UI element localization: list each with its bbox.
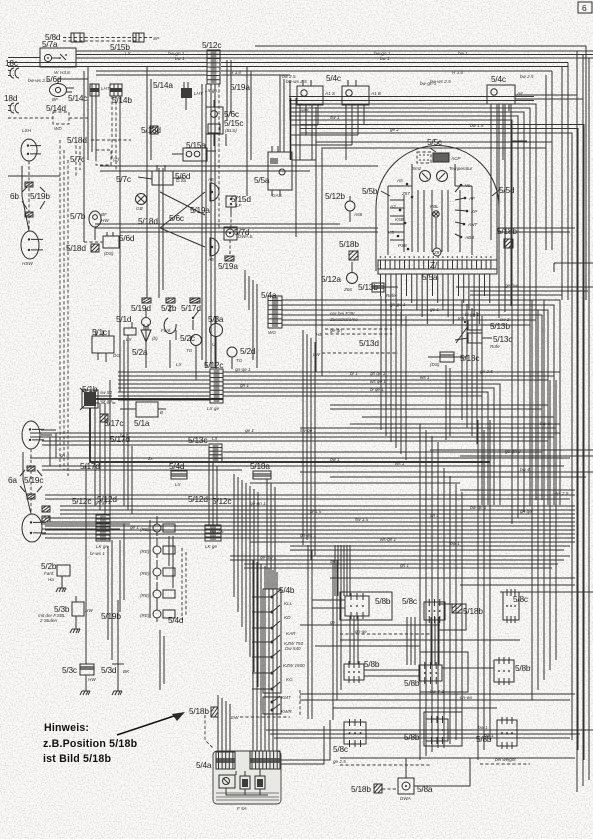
svg-text:5/18d: 5/18d [66, 243, 86, 253]
svg-text:5/4a: 5/4a [196, 760, 212, 770]
svg-text:gn-ge: gn-ge [355, 629, 367, 634]
svg-text:Zusatzstrome: Zusatzstrome [329, 317, 358, 322]
module frame right of 5/8c row1 [438, 604, 466, 630]
unit 5/8a DWA [398, 778, 414, 801]
svg-text:ws 1: ws 1 [420, 375, 430, 380]
vertical bus x478-492 [478, 420, 490, 760]
svg-text:(RE): (RE) [140, 571, 150, 576]
svg-text:sw 1: sw 1 [330, 115, 340, 120]
module frame around 5/8b row2-mid [420, 652, 468, 692]
wire 6b chain vertical [22, 161, 29, 231]
svg-text:18c: 18c [5, 58, 18, 68]
svg-text:bl 1.5: bl 1.5 [310, 509, 322, 514]
relay 5/8c row3-left [344, 719, 366, 747]
connector SP dashed line 5/8d [63, 38, 152, 42]
svg-text:LX: LX [126, 337, 133, 342]
connector 5/18b row1 hatch [452, 604, 462, 613]
svg-text:EW: EW [231, 715, 239, 720]
svg-text:ge-gn: ge-gn [330, 328, 342, 333]
svg-text:2x: 2x [147, 456, 154, 461]
svg-text:bw 1: bw 1 [458, 51, 468, 56]
svg-text:5/19a: 5/19a [190, 205, 210, 215]
svg-text:bw-gn 1: bw-gn 1 [470, 505, 487, 510]
wire dashed verticals beside chain [182, 548, 186, 620]
wire dashed ge2.5 bottom [333, 757, 530, 765]
svg-text:5/13c: 5/13c [493, 334, 512, 344]
svg-text:5/18a: 5/18a [250, 461, 270, 471]
svg-text:5/19c: 5/19c [24, 475, 43, 485]
dashed box 5/7c upper [96, 150, 111, 165]
wire bus top-B right of 5/12c [221, 63, 568, 67]
relay 5/6d mid body with DS [152, 165, 187, 185]
wire 5/19b vertical [108, 524, 124, 660]
wire top-left risers [76, 66, 88, 242]
wire 5/7a left stub to page edge [8, 57, 40, 59]
arrow to 5/18b [117, 712, 185, 735]
svg-text:A55: A55 [353, 212, 363, 217]
svg-text:VL: VL [465, 183, 471, 188]
lamp GB circle [136, 194, 147, 212]
switch 5/2b mid [161, 305, 176, 340]
wire bus y404-417 right half [330, 405, 554, 417]
lamp 5/19d symbol [142, 308, 151, 334]
wire feeders into fuse box left [205, 695, 230, 752]
svg-text:5/1b: 5/1b [82, 384, 98, 394]
fuse box inner element 2 [240, 776, 250, 789]
wire verticals x280-284 to GAS [280, 75, 284, 152]
connector 5/12c top [207, 50, 220, 84]
svg-text:5/3a: 5/3a [208, 314, 224, 324]
relay 5/8b row3-mid [426, 716, 448, 744]
svg-text:5/4a: 5/4a [261, 290, 277, 300]
svg-text:bl ge 1: bl ge 1 [370, 387, 384, 392]
wire bus top-C2 (y96-100) [289, 97, 534, 101]
wire row y483 [250, 482, 460, 484]
wire dome feeder verticals down to buses [381, 296, 482, 460]
connector 5/1d [124, 322, 136, 345]
svg-text:ge: ge [330, 620, 336, 625]
svg-text:KZW 1500: KZW 1500 [283, 663, 305, 668]
module frame around 5/8b row1 [340, 592, 392, 620]
wire misc bottom-right [300, 690, 470, 786]
wire bus G (y458-470) [30, 452, 570, 470]
svg-text:5/14a: 5/14a [153, 80, 173, 90]
headlamp 6b upper oval [21, 139, 41, 161]
svg-text:Z66: Z66 [343, 287, 352, 292]
svg-text:5/12c: 5/12c [72, 496, 91, 506]
connector 5/19d top hatch [142, 298, 151, 303]
ground under 5/3d [112, 686, 122, 695]
svg-text:nur bei F28L: nur bei F28L [330, 311, 356, 316]
unit 5/1a box [120, 402, 166, 417]
unit 5/3b box [72, 596, 93, 624]
svg-text:5/7c: 5/7c [70, 154, 85, 164]
svg-text:5/15a: 5/15a [186, 140, 206, 150]
svg-text:ist Bild 5/18b: ist Bild 5/18b [43, 753, 111, 765]
svg-text:(RE): (RE) [140, 613, 150, 618]
connector LK ge striped right [205, 525, 221, 549]
svg-text:bw-T 1: bw-T 1 [430, 689, 444, 694]
svg-text:5/8b: 5/8b [404, 678, 420, 688]
wire verticals top-mid legs [147, 60, 257, 368]
ground under 5/3b [70, 624, 80, 633]
svg-text:5/2c: 5/2c [180, 333, 195, 343]
svg-text:5/8b: 5/8b [515, 663, 531, 673]
svg-text:LX: LX [125, 51, 132, 56]
wire 6a chain vertical [23, 449, 31, 514]
svg-text:(RE): (RE) [140, 549, 150, 554]
svg-text:bl-ge 1: bl-ge 1 [465, 312, 479, 317]
wire bus dome-right (y287-295) [456, 287, 593, 295]
wire top-right staircase to edge [511, 95, 583, 141]
wire mid cluster risers [124, 334, 232, 440]
connector 5/18b target hatch [211, 707, 218, 717]
wire 5/18b to 5/8a dashed [382, 758, 406, 789]
dome inner frame [388, 164, 472, 255]
wire bus from 5/12c mid to right [223, 372, 560, 505]
svg-text:sw 1.5: sw 1.5 [355, 517, 369, 522]
headlamp 6b lower oval [21, 231, 43, 259]
svg-text:KWR: KWR [281, 709, 292, 714]
svg-text:5/3c: 5/3c [62, 665, 77, 675]
module frame around 5/8b row3-mid [424, 712, 462, 746]
wire code texture labels [60, 81, 569, 700]
wire 5/5d pointer [492, 190, 499, 196]
fuse box inner texture rows [216, 793, 279, 800]
svg-text:gn-ge 1: gn-ge 1 [95, 500, 111, 505]
relay 5/8b row2-left [344, 661, 364, 683]
svg-text:(RE): (RE) [140, 527, 150, 532]
svg-text:bw 1: bw 1 [175, 56, 185, 61]
wire 5/3b riser [85, 534, 87, 600]
ground under 5/3c [80, 686, 90, 695]
svg-text:bei weight: bei weight [495, 757, 516, 762]
wire 5/1b area stubs [96, 390, 116, 403]
svg-text:gn 1: gn 1 [430, 513, 439, 518]
relay 5/8b row2-mid [419, 662, 442, 684]
svg-text:5/15d: 5/15d [231, 194, 251, 204]
connector 5/1b dark plug [80, 388, 98, 410]
wire big bus (y505-540) [45, 506, 575, 550]
fuse box inner relay circle [219, 775, 235, 788]
dome left terminal dots [388, 178, 413, 250]
svg-text:5/18b: 5/18b [351, 784, 371, 794]
relay 5/13b right [458, 316, 482, 330]
wire HE dashed pair mid [316, 328, 392, 337]
svg-text:5/5b: 5/5b [362, 186, 378, 196]
svg-text:B: B [160, 410, 163, 415]
switch 5/2d [227, 347, 243, 364]
svg-text:Rufe: Rufe [386, 293, 396, 298]
svg-text:5/8b: 5/8b [375, 596, 391, 606]
svg-text:WD: WD [54, 126, 62, 131]
svg-text:KP: KP [471, 209, 478, 214]
svg-text:ge 1: ge 1 [130, 525, 139, 530]
switch 5/15d [226, 196, 243, 214]
svg-text:HSW: HSW [22, 261, 33, 266]
wire 5/18d stub [91, 139, 131, 141]
ACP hatched display in dome [433, 153, 461, 162]
connector 5/17d top hatch [190, 298, 200, 303]
socket 5/12b circle A55 [345, 196, 363, 222]
svg-text:ge 1: ge 1 [245, 428, 254, 433]
horn 5/6d oval [50, 84, 75, 97]
svg-text:(RE): (RE) [140, 593, 150, 598]
svg-text:Z57: Z57 [401, 191, 410, 196]
wire feeders into fuse box right [253, 560, 277, 751]
connector 5/8d left plug [71, 33, 84, 42]
headlamp 6a lower oval [22, 514, 46, 542]
wire 5/6d up to bus [58, 79, 88, 84]
svg-text:(b): (b) [152, 336, 158, 341]
svg-text:A1 B: A1 B [370, 91, 381, 96]
svg-text:bw-gn 1: bw-gn 1 [420, 81, 437, 86]
connector 5/18b bottom hatch [374, 784, 382, 793]
svg-text:6b: 6b [10, 191, 19, 201]
ground under 5/2b [56, 583, 66, 592]
wire enclosing loop around dome outer [316, 142, 552, 372]
svg-text:ws 2.5: ws 2.5 [555, 491, 569, 496]
svg-text:(DS): (DS) [104, 251, 114, 256]
vertical bus x333-341 [333, 555, 341, 720]
wire 6a stubs right [41, 430, 130, 534]
svg-text:5/14b: 5/14b [112, 95, 132, 105]
wire mid horizontals (y165-175) [8, 166, 378, 176]
wire bus F (y433-445) [30, 433, 560, 445]
svg-text:Fanf.: Fanf. [44, 571, 54, 576]
svg-text:KLL: KLL [284, 601, 293, 606]
wire verticals x446-450 from 5/13c [446, 365, 450, 440]
wire right bus rows (y545-600) [230, 556, 593, 592]
connector 5/18b dome-left hatch [349, 251, 358, 260]
svg-text:LHT: LHT [101, 86, 111, 91]
svg-text:sw-ge 1: sw-ge 1 [300, 428, 317, 433]
svg-text:gn-ws 1: gn-ws 1 [300, 533, 317, 538]
wire 5/7d down to 5/19a [229, 240, 231, 256]
svg-text:5/13b: 5/13b [490, 321, 510, 331]
wire bus top-C [96, 71, 207, 75]
svg-text:A1 S: A1 S [324, 91, 336, 96]
relay 5/8b row3-right [497, 717, 517, 749]
wire top line y46 loop [255, 46, 586, 300]
svg-text:6: 6 [582, 3, 587, 13]
connector 5/14c [90, 84, 99, 96]
relay 5/6d lower-left body [84, 232, 119, 256]
wire bus from 5/4a to right (y300-326) [282, 300, 560, 500]
svg-text:5/2d: 5/2d [240, 346, 256, 356]
wire EW dashed bottom [231, 715, 290, 720]
wire 5/4b rail risers [267, 479, 275, 589]
wire 5/13 connector down to LK ge [209, 462, 217, 525]
svg-text:5/13d: 5/13d [359, 338, 379, 348]
svg-text:5/19b: 5/19b [30, 191, 50, 201]
svg-text:bw-ws 2.5: bw-ws 2.5 [28, 78, 49, 83]
svg-text:5/4b: 5/4b [279, 585, 295, 595]
svg-text:5/14d: 5/14d [46, 103, 66, 113]
svg-text:5/3d: 5/3d [101, 665, 117, 675]
connector LK gn striped left [96, 515, 110, 549]
relay 5/8c row1-mid [424, 599, 445, 623]
wire bw-T bus bottom right [266, 725, 593, 738]
oval 5/7b [89, 211, 109, 240]
wire verticals mid legs to bundles [50, 433, 164, 690]
svg-text:br 1: br 1 [120, 433, 128, 438]
svg-text:ANT: ANT [467, 222, 478, 227]
wire 5/4c left pins down [300, 112, 364, 160]
svg-text:Dw 540: Dw 540 [285, 646, 301, 651]
dome internal wiring web [390, 185, 467, 252]
wire verticals below 5/4c right (x499-511) [499, 104, 511, 318]
svg-text:(BLS): (BLS) [225, 128, 237, 133]
svg-text:Hinweis:: Hinweis: [44, 722, 89, 734]
wire relay A stubs [312, 600, 358, 664]
wire vertical x296 [295, 98, 297, 237]
relay 5/1c body [92, 330, 120, 362]
svg-text:ge-gn 2: ge-gn 2 [505, 449, 521, 454]
wire row y646 [315, 645, 420, 647]
fuse box 5/4a outer [213, 751, 281, 804]
svg-text:Z8: Z8 [433, 250, 440, 255]
connector 18c headlight plug [8, 68, 19, 78]
svg-text:bw 1.5: bw 1.5 [470, 123, 484, 128]
svg-text:ge-bw: ge-bw [505, 283, 518, 288]
wire 5/5b pointer [381, 191, 390, 196]
svg-text:(DS): (DS) [430, 362, 440, 367]
wire 5/4b feeders vertical [234, 474, 258, 687]
svg-text:LX: LX [176, 362, 183, 367]
svg-text:BK: BK [123, 669, 130, 674]
svg-text:bw 1: bw 1 [478, 725, 488, 730]
fuse box pin strip left [216, 752, 235, 769]
svg-text:LX ge: LX ge [207, 406, 219, 411]
svg-text:5/1a: 5/1a [134, 418, 150, 428]
relay 5/13c right [468, 333, 500, 349]
svg-text:LK gn: LK gn [96, 544, 108, 549]
horn 5/3a circle [210, 316, 223, 347]
svg-text:bw 1: bw 1 [330, 457, 340, 462]
svg-text:sw 5B: sw 5B [100, 398, 113, 403]
wire web around 5/13 group [455, 326, 468, 343]
svg-text:ws-gn 1: ws-gn 1 [380, 537, 397, 542]
svg-text:5/1d: 5/1d [116, 314, 132, 324]
wire 6b label pointers [22, 187, 45, 209]
svg-text:br 1: br 1 [350, 371, 358, 376]
svg-text:bw 1: bw 1 [380, 56, 390, 61]
svg-text:5/5d: 5/5d [499, 185, 515, 195]
connector 5/17c hatch [100, 414, 108, 422]
svg-text:ge 2: ge 2 [390, 127, 399, 132]
connector 5/8d right plug [133, 33, 144, 42]
wire enclosing loop around dome inner [322, 148, 546, 376]
socket 5/12a circle Z66 [343, 262, 358, 292]
svg-text:KG: KG [286, 677, 293, 682]
svg-text:HW: HW [101, 218, 109, 223]
svg-text:sw 1: sw 1 [330, 559, 340, 564]
svg-text:DG: DG [113, 353, 120, 358]
wire 5/12c vertical drops [211, 84, 219, 368]
svg-text:5/17d: 5/17d [80, 461, 100, 471]
svg-text:5/8b: 5/8b [364, 659, 380, 669]
switch column 5/4b outline [263, 589, 281, 714]
svg-text:H 3.8: H 3.8 [230, 70, 241, 75]
svg-text:gn-ge 1: gn-ge 1 [390, 302, 406, 307]
svg-text:A5: A5 [396, 178, 403, 183]
svg-text:ACP: ACP [450, 156, 461, 161]
svg-text:Temperatur: Temperatur [449, 166, 473, 171]
svg-text:5/2b: 5/2b [161, 303, 177, 313]
svg-text:GAS: GAS [272, 193, 283, 198]
svg-text:F 5A: F 5A [237, 806, 247, 811]
svg-text:KMT: KMT [281, 695, 292, 700]
svg-text:ge-gn 1: ge-gn 1 [250, 501, 266, 506]
lamp KBL symbol in dome [430, 204, 439, 217]
wire relay feeder verticals row1 [308, 545, 439, 719]
wire horizontals y223-232 [95, 224, 575, 232]
svg-text:bw 2.5: bw 2.5 [210, 529, 224, 534]
svg-text:ge-bw 1: ge-bw 1 [260, 555, 277, 560]
svg-text:ge 2.5: ge 2.5 [333, 759, 346, 764]
relay 5/4c right [487, 85, 523, 111]
svg-text:LSH: LSH [22, 128, 32, 133]
svg-text:(Z): (Z) [113, 157, 119, 162]
svg-text:5/8c: 5/8c [513, 594, 528, 604]
svg-text:2 Stufen: 2 Stufen [39, 618, 58, 623]
svg-text:sw 2: sw 2 [500, 317, 510, 322]
wire verticals x247-251 top [247, 67, 251, 196]
svg-text:gn-ge 1: gn-ge 1 [235, 367, 251, 372]
buzzer 5/2a triangle [141, 324, 158, 342]
svg-text:gn 2.5: gn 2.5 [480, 369, 493, 374]
relay 5/8b row2-right [494, 657, 514, 685]
svg-text:5/6c: 5/6c [169, 213, 184, 223]
svg-text:PS8: PS8 [398, 243, 407, 248]
svg-text:LK ge: LK ge [205, 544, 217, 549]
svg-text:5/13c: 5/13c [460, 353, 479, 363]
wire relay horizontals y620-640 [300, 620, 520, 640]
wire 5/5c pointer [430, 148, 436, 152]
svg-text:bw-ws 2.5: bw-ws 2.5 [286, 79, 307, 84]
wire 6a label pointers [20, 470, 42, 492]
wire long horizontals right half (y420-500) [45, 424, 593, 499]
half-moon contact A5 lower [207, 238, 219, 262]
relay chain TRE (x142-172) [140, 516, 175, 622]
connector 5/18d lowest hatch [91, 244, 99, 252]
svg-text:ws 1: ws 1 [395, 461, 405, 466]
fuse box inner element 3 [255, 776, 265, 789]
wire bus y135-160 joins [290, 125, 358, 145]
switch 5/17d mid [192, 310, 199, 330]
indicator dotted box in dome [417, 152, 431, 163]
svg-text:Z/: Z/ [430, 260, 438, 270]
svg-text:5/13c: 5/13c [188, 435, 207, 445]
unit 5/5a GAS box [268, 146, 292, 198]
svg-text:5/19a: 5/19a [218, 261, 238, 271]
svg-text:HE: HE [316, 332, 323, 337]
svg-text:bw 2.5: bw 2.5 [520, 74, 534, 79]
svg-text:gn 4: gn 4 [60, 453, 69, 458]
relay 5/4c left-B [342, 80, 381, 112]
svg-text:LW: LW [313, 352, 320, 357]
vertical bus x532-560 [532, 300, 556, 700]
switch contacts 5/4b [252, 590, 280, 712]
connector 5/12c mid [210, 369, 223, 403]
svg-text:Smz: Smz [412, 166, 422, 171]
svg-text:SP: SP [153, 36, 160, 41]
motor 5/7d [224, 227, 254, 240]
vertical bus center-right (x420-462) [420, 424, 462, 760]
connector Z8 circle in dome [433, 248, 441, 256]
wire bus top-A (bw-gn feed to right edge) [76, 51, 593, 58]
